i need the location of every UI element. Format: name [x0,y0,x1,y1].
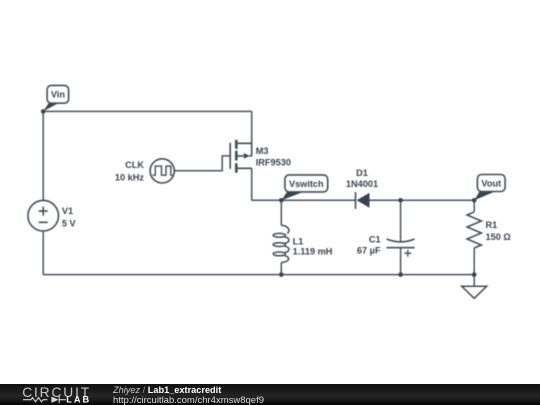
svg-text:150 Ω: 150 Ω [486,232,511,242]
svg-text:CLK: CLK [125,160,144,170]
svg-text:M3: M3 [256,146,269,156]
node label Vout [474,175,505,201]
wire C1 bottom [400,248,402,275]
svg-text:5 V: 5 V [62,218,77,228]
wire Vswitch rail to diode [252,199,356,201]
wire L1 bottom [280,263,282,275]
svg-text:C1: C1 [369,235,381,245]
ground [462,286,487,298]
wire bottom rail [43,274,474,276]
node label Vin [43,85,68,111]
node dot C1 bottom junction [398,272,403,277]
capacitor C1 [387,239,415,257]
svg-text:10 kHz: 10 kHz [115,172,145,182]
wire M3 drain to Vswitch rail [251,168,253,200]
svg-text:V1: V1 [62,206,73,216]
label R1 150 Ohm [486,220,511,242]
label CLK 10 kHz [115,160,145,182]
label V1 5V [62,206,77,228]
wire CLK to gate [174,156,231,171]
label M3 IRF9530 [256,146,291,168]
svg-text:Vin: Vin [51,90,66,100]
svg-text:Vswitch: Vswitch [289,179,324,189]
label C1 67uF [357,235,381,256]
node dot R1 bottom junction [472,272,477,277]
wire Vin vertical to V1 [42,111,44,200]
label D1 1N4001 [346,168,378,189]
wire L1 top [280,200,282,225]
resistor R1 [467,212,481,248]
wire R1 top [473,200,475,212]
transistor M3 body arrow [244,153,250,159]
wire M3 source drop [251,111,253,143]
inductor L1 [273,225,289,262]
svg-text:67 µF: 67 µF [357,246,381,256]
node dot Vout junction [472,198,477,203]
svg-text:LAB: LAB [66,395,91,405]
node dot Vswitch junction [279,198,284,203]
CircuitLab logo [0,384,110,405]
wire V1 bottom to ground rail corner [42,231,44,275]
footer url [113,395,264,405]
transistor M3 (PMOS) [230,140,252,173]
node label Vswitch [281,175,327,200]
svg-text:Vout: Vout [481,178,501,188]
wire top rail Vin to M3 source [43,110,252,112]
node dot Vin junction [41,109,46,114]
footer title [113,385,221,395]
diode D1 [356,192,370,209]
node dot L1 bottom junction [279,272,284,277]
wire C1 top [400,200,402,242]
node dot C1 top junction [398,198,403,203]
svg-text:R1: R1 [486,220,498,230]
wire R1 bottom [473,248,475,275]
clock source CLK [150,159,174,183]
wire diode to Vout node [370,199,475,201]
wire ground stub [473,275,475,287]
voltage source V1 [28,200,59,231]
label L1 1.119 mH [293,236,333,256]
svg-text:1N4001: 1N4001 [346,179,378,189]
svg-text:L1: L1 [293,236,304,246]
svg-text:D1: D1 [356,168,368,178]
svg-text:1.119 mH: 1.119 mH [293,247,333,257]
svg-text:IRF9530: IRF9530 [256,157,291,167]
